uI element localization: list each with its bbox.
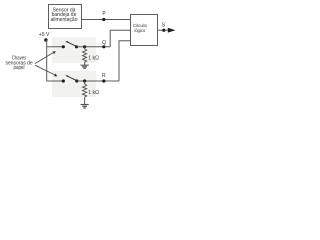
node R — [102, 73, 106, 82]
scan tint wash upper — [52, 37, 96, 63]
resistor R2 1 kΩ — [83, 81, 100, 97]
node: +5V terminal dot — [44, 38, 47, 41]
wire: S output — [158, 29, 170, 31]
node S — [162, 23, 166, 32]
switch SW1 (paper sensor switch, open) — [62, 41, 78, 48]
scan tint wash lower — [52, 71, 96, 97]
box: sensor da bandeja de alimentação — [49, 5, 82, 29]
svg-text:+5 V: +5 V — [39, 32, 50, 38]
node: resistor R2 top junction — [83, 79, 86, 82]
node: resistor R1 top junction — [83, 45, 86, 48]
arrow: label pointer to switch 1 — [35, 51, 56, 64]
ground: below R1 — [81, 62, 89, 68]
svg-text:papel: papel — [14, 65, 25, 71]
wire: +5V rail down to switch row 2 — [47, 40, 64, 81]
arrow: label pointer to switch 2 — [35, 65, 57, 76]
wire: switch 2 to node R — [77, 80, 119, 82]
svg-text:1 kΩ: 1 kΩ — [88, 55, 99, 61]
ground: below R2 — [81, 97, 89, 108]
svg-text:lógico: lógico — [135, 28, 146, 33]
wire: sensor output P to logic box — [81, 19, 131, 21]
svg-text:Q: Q — [102, 40, 106, 46]
node Q — [102, 40, 106, 48]
wire: switch 1 to node Q — [77, 46, 111, 48]
box: circuito lógico U1 — [131, 15, 158, 46]
switch SW2 (paper sensor switch, open) — [62, 75, 79, 82]
resistor R1 1 kΩ — [83, 47, 100, 63]
wire: +5V branch to switch 1 — [47, 46, 64, 48]
svg-text:1 kΩ: 1 kΩ — [88, 90, 99, 96]
arrowhead: S output arrow — [168, 28, 176, 33]
svg-text:R: R — [102, 73, 106, 79]
wire: node R up to logic box input — [119, 41, 131, 81]
svg-text:alimentação: alimentação — [51, 17, 78, 23]
node P — [102, 11, 106, 21]
label: chaves sensoras de papel — [6, 55, 33, 71]
wire: node Q up to logic box input — [110, 30, 130, 47]
